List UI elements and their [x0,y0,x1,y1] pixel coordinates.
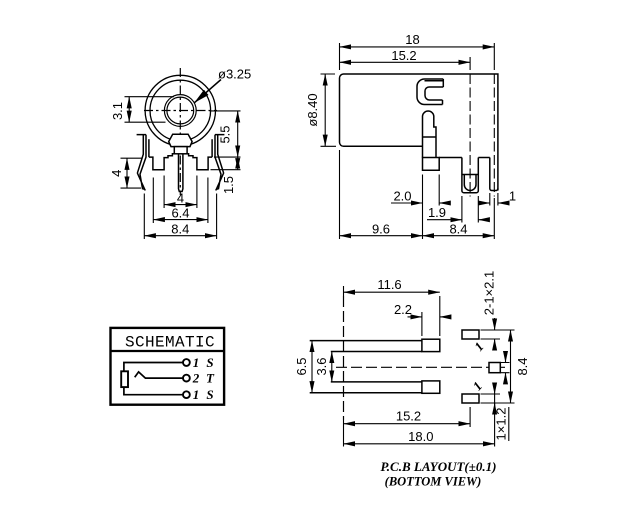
dimension 4 bottom [164,204,197,206]
right leg center line (dashed) [493,74,495,197]
dimension 6.4 extension lines [153,178,208,224]
svg-text:6.4: 6.4 [171,205,189,220]
middle leg center line (dashed) [469,74,471,197]
lower left pad 2.2 [422,381,440,393]
dimension 8.4 pcb [510,330,512,403]
svg-text:1: 1 [509,188,516,203]
svg-text:(BOTTOM VIEW): (BOTTOM VIEW) [385,475,482,489]
svg-text:4: 4 [177,190,184,205]
horizontal center line (dashed) [336,366,505,368]
svg-text:3.1: 3.1 [110,102,125,120]
lower slot outline [310,382,422,393]
plunger extension lines below [423,175,440,240]
left leg spring [137,135,146,191]
dimension 3.1 extension lines [125,97,175,123]
dimension 1 lower pad (outside arrows) [494,386,496,394]
dimension 1.2 center pad (outside arrows) [505,353,507,363]
svg-text:8.4: 8.4 [449,221,467,236]
center pad extension lines [501,363,510,373]
dimension dia8.40 extension lines [321,74,337,146]
svg-text:15.2: 15.2 [396,409,421,424]
tip lever wire (middle) [135,372,184,378]
dimension 18 extension lines [340,43,495,70]
right leg spring [215,135,224,191]
dimension 4 left [126,158,128,188]
dimension 11.6 extension line right [439,296,441,336]
svg-text:4: 4 [109,170,124,177]
svg-text:2-1×2.1: 2-1×2.1 [481,271,496,315]
dimension 6.4 [153,219,208,221]
dimension dia8.40 [324,74,326,146]
dimension 4 left extension lines [121,158,143,188]
right slab edge [211,139,213,157]
stepped bottom profile right [187,154,212,170]
middle leg (pin 2) [462,158,478,193]
left slab edge [148,139,150,157]
vertical center line (dashed) [179,68,181,195]
svg-text:2.2: 2.2 [394,302,412,317]
bottom extension lines 9.6/8.4 [340,150,495,239]
dimension 18 [340,46,495,48]
svg-text:P.C.B LAYOUT(±0.1): P.C.B LAYOUT(±0.1) [381,459,497,474]
inner ring circle [164,95,196,127]
dimension 5.5 extension lines [210,111,241,157]
lower right pad 1x2.1 [462,394,479,403]
dimension 1 (outside arrows) [482,202,490,204]
body outline [340,74,498,191]
right pads extension lines [481,330,515,403]
dimension 6.5 [311,341,313,393]
terminal circle 1 S (bottom) [183,391,190,398]
svg-text:18.0: 18.0 [408,429,433,444]
body bottom edge right of pin [439,157,490,159]
terminal circle 1 S (top) [183,359,190,366]
dimension 1.9 extension lines [462,196,478,223]
center pad 1x1.2 [489,363,500,373]
dimension 2.2 extension line [421,312,423,336]
upper right pad 1x2.1 [462,330,479,339]
svg-text:18: 18 [405,32,419,47]
svg-text:5.5: 5.5 [217,125,232,143]
switch pin plunger [423,111,437,157]
bottom key notch (crown) of barrel [169,134,192,146]
terminal circle 2 T (middle) [183,375,190,382]
1x1.2 label line [508,407,510,441]
outer barrel circle [145,75,215,145]
center pin holder block [174,147,187,154]
svg-text:2.0: 2.0 [393,188,411,203]
dimension 5.5 [237,111,239,157]
stepped bottom profile left [149,154,174,170]
svg-text:8.4: 8.4 [515,357,530,375]
dimension 1.5 extension line [211,169,241,171]
second barrel circle [150,80,211,141]
dimension 3.1 [128,97,130,123]
svg-text:ø3.25: ø3.25 [218,67,251,82]
dimension 11.6 [344,291,440,293]
plunger collar [423,158,440,171]
dimension 1 extension lines [490,193,498,206]
dimension 15.2 [340,61,471,63]
dimension 2.0 (outside arrows) [391,202,423,204]
schematic outer box [111,328,225,405]
dimension 8.4 side [423,235,495,237]
dimension 18.0 pcb [344,443,495,445]
jack hole circle (dia 3.25) [167,97,194,124]
svg-text:11.6: 11.6 [377,277,401,292]
dimension 1 upper pad (outside arrows) [494,339,496,349]
dimension 2.2 (outside arrows) [408,316,422,318]
dimension 3.6 [331,352,333,382]
upper slot outline [310,341,422,352]
svg-text:6.5: 6.5 [294,357,309,375]
right leg (pin 1) [490,158,498,191]
dimension 4 bottom extension lines [164,176,197,209]
svg-text:1.9: 1.9 [428,205,446,220]
sleeve wire (top) [124,363,183,395]
dimension 1.5 [237,157,239,170]
svg-text:ø8.40: ø8.40 [305,93,320,126]
center pin [179,154,183,192]
svg-text:9.6: 9.6 [372,221,390,236]
svg-text:3.6: 3.6 [314,357,329,375]
svg-text:1.5: 1.5 [221,176,236,194]
schematic title separator [111,350,225,352]
left extension line (dashed through figure) [343,286,345,296]
label dia3.25 leader line [194,80,221,103]
svg-text:SCHEMATIC: SCHEMATIC [125,333,215,351]
dimension 15.2 extension line [469,57,471,70]
dimension 9.6 [340,235,423,237]
C-shaped clip contact [417,79,443,105]
sleeve contact rectangle [121,371,128,387]
svg-text:15.2: 15.2 [391,48,416,63]
svg-text:1×1.2: 1×1.2 [493,408,508,441]
dimension 15.2 pcb [344,423,471,425]
dimension 8.4 front [144,235,216,237]
dimension 15.2 pcb extension line [469,407,471,427]
upper left pad 2.2 [422,339,440,351]
horizontal center line (dashed) [144,110,217,112]
dimension 8.4 extension lines [144,194,216,240]
dimension 1.9 (outside arrows) [427,219,462,221]
svg-text:8.4: 8.4 [171,221,189,236]
label 2-1x2.1 pointer line [494,318,496,330]
